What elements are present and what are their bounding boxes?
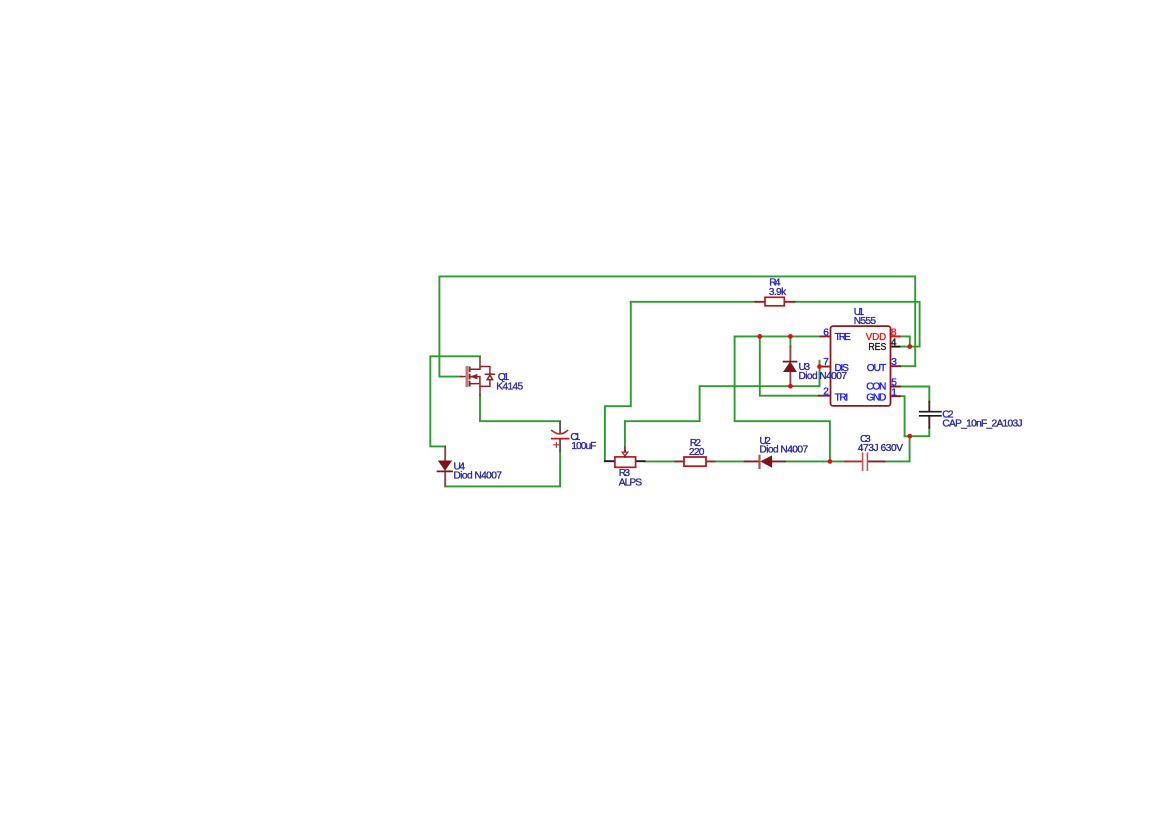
wire R4 to R3 left — [605, 302, 631, 461]
wire top rail OUT to gate — [439, 276, 915, 366]
junction U3 anode tap — [788, 334, 793, 339]
wire TRE horizontal — [735, 335, 821, 337]
svg-text:1: 1 — [891, 387, 897, 398]
capacitor C1 — [552, 421, 569, 451]
junction U3 cathode tap — [788, 384, 793, 389]
resistor R4 — [755, 297, 794, 306]
wire bottom row seg3 — [785, 460, 845, 462]
wire Q1 source to C1 top — [480, 395, 560, 421]
wire DIS to wiper — [625, 361, 820, 422]
wire pin1 GND jog — [900, 396, 905, 436]
svg-text:220: 220 — [689, 447, 705, 458]
diode U3 — [784, 347, 797, 385]
junction U2-C3 node — [828, 459, 833, 464]
svg-text:6: 6 — [823, 327, 829, 338]
wire R4 right segment to VDD/RES node — [795, 302, 920, 347]
svg-text:2: 2 — [823, 387, 829, 398]
svg-text:7: 7 — [823, 357, 829, 368]
svg-text:DIS: DIS — [835, 363, 850, 374]
junction VDD-RES node — [907, 344, 912, 349]
wire bottom row seg2 — [715, 460, 745, 462]
junction GND-C2 node — [907, 434, 912, 439]
capacitor C3 — [845, 453, 884, 470]
svg-text:4: 4 — [891, 338, 897, 349]
wire U3 top stub — [789, 336, 791, 346]
svg-text:Diod N4007: Diod N4007 — [454, 471, 503, 482]
wire bottom rail U4 to C1 — [445, 451, 560, 486]
wire R4 left segment — [631, 301, 756, 303]
wire C2 bottom to GND node — [905, 428, 930, 437]
wire bottom row seg1 — [645, 460, 676, 462]
svg-text:TRE: TRE — [835, 332, 852, 343]
wire pin5 CON to C2 top — [900, 387, 930, 402]
svg-text:K4145: K4145 — [496, 382, 523, 393]
wire TRE node down to bottom junction — [735, 336, 830, 461]
potentiometer R3 — [605, 447, 645, 467]
junction pin7 DIS — [817, 364, 822, 369]
junction TRE-TRI tap — [757, 334, 762, 339]
transistor Q1 — [461, 357, 495, 395]
wire bottom row seg4 to GND node — [885, 436, 910, 461]
svg-text:100uF: 100uF — [571, 441, 596, 452]
wire gate drop — [439, 276, 460, 376]
IC U1 N555 — [819, 326, 900, 406]
diode U2 — [745, 456, 786, 468]
svg-text:TRI: TRI — [835, 393, 849, 404]
svg-text:CAP_10nF_2A103J: CAP_10nF_2A103J — [942, 419, 1022, 430]
wire wiper drop — [624, 421, 626, 447]
svg-text:OUT: OUT — [867, 363, 886, 374]
svg-text:3.9k: 3.9k — [769, 287, 787, 298]
wire TRE to TRI link — [760, 336, 819, 395]
svg-text:473J 630V: 473J 630V — [858, 443, 903, 454]
svg-text:3: 3 — [891, 357, 897, 368]
wire pin8 VDD jog — [900, 336, 910, 346]
svg-text:Diod N4007: Diod N4007 — [759, 445, 808, 456]
diode U4 — [438, 446, 453, 486]
svg-text:N555: N555 — [854, 316, 877, 327]
resistor R2 — [675, 457, 714, 466]
wire Q1 drain loop top — [430, 356, 480, 446]
svg-text:ALPS: ALPS — [619, 477, 643, 488]
svg-text:CON: CON — [866, 382, 886, 393]
capacitor C2 — [920, 402, 941, 428]
svg-text:RES: RES — [868, 342, 886, 353]
labels — [454, 278, 1023, 489]
svg-text:GND: GND — [866, 393, 886, 404]
